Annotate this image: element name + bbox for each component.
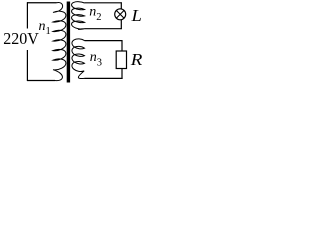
svg-text:R: R — [130, 50, 143, 69]
svg-text:n2: n2 — [89, 5, 101, 23]
wire: n3 bottom terminal — [85, 77, 123, 79]
wire: lamp bottom stub — [120, 20, 122, 30]
wire: lamp branch vertical down from corner — [120, 2, 122, 9]
svg-text:L: L — [130, 6, 142, 25]
wire: primary top horizontal — [27, 2, 57, 4]
wire: resistor branch vertical lower — [121, 69, 123, 79]
wire: primary bottom horizontal — [27, 80, 55, 82]
wire: n2 bottom terminal — [85, 28, 122, 30]
wire: n3 top terminal to resistor branch — [85, 40, 123, 42]
svg-text:n3: n3 — [90, 50, 102, 69]
resistor R (rectangle) — [116, 51, 126, 69]
wire: primary left vertical upper segment — [26, 2, 28, 28]
wire: n2 top terminal to lamp branch — [85, 2, 122, 4]
inductor winding n1 (primary coil) — [53, 2, 66, 80]
svg-text:220V: 220V — [3, 29, 39, 48]
wire: primary left vertical lower segment — [26, 50, 28, 81]
inductor winding n2 (secondary top coil) — [72, 2, 85, 30]
lamp L (circle with cross) — [115, 9, 126, 20]
svg-text:n1: n1 — [39, 19, 51, 37]
inductor winding n3 (secondary bottom coil) — [72, 39, 85, 79]
transformer core — [67, 2, 70, 83]
wire: resistor branch vertical upper — [121, 40, 123, 51]
